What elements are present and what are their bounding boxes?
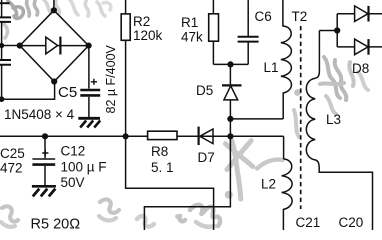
node diode split junction	[334, 27, 340, 33]
resistor R1	[209, 14, 219, 41]
svg-text:C20: C20	[339, 215, 364, 230]
svg-text:D5: D5	[196, 83, 213, 98]
wire bridge top lead	[53, 0, 55, 10]
node D5 anode / L1 junction	[227, 116, 233, 122]
wire D8 row	[337, 46, 382, 48]
node left edge junction	[0, 43, 4, 48]
bridge inner wire	[20, 45, 89, 47]
wire R1 to C6	[213, 63, 248, 65]
wire C12 to ground	[44, 166, 46, 185]
wire left edge vertical top	[1, 0, 3, 99]
wire L3 to diode junction	[319, 30, 337, 32]
watermark big X center	[225, 140, 282, 199]
wire left node to edge	[2, 45, 20, 47]
svg-text:1N5408 × 4: 1N5408 × 4	[4, 107, 75, 122]
resistor R2	[121, 14, 130, 40]
ground (under C12)	[32, 186, 56, 196]
wire R1 top lead	[212, 0, 214, 14]
wire C6 top lead	[247, 0, 249, 36]
svg-text:120k: 120k	[133, 28, 163, 43]
svg-text:50V: 50V	[61, 175, 85, 190]
svg-text:R8: R8	[151, 144, 168, 159]
wire main rail	[0, 135, 284, 137]
svg-text:C12: C12	[61, 144, 86, 159]
wire rail corner down to L2	[283, 136, 285, 159]
diode D7	[199, 127, 213, 145]
svg-text:R1: R1	[181, 15, 198, 30]
svg-text:R2: R2	[133, 14, 150, 29]
watermark bottom-left swirls	[1, 200, 119, 227]
svg-text:100 µ F: 100 µ F	[61, 160, 107, 175]
resistor R8	[148, 131, 177, 139]
inductor L3 (T2 secondary)	[306, 71, 319, 169]
diode D8	[355, 39, 369, 55]
svg-text:D7: D7	[198, 150, 215, 165]
wire D5 node to L1 bottom	[230, 118, 283, 120]
watermark top-left	[4, 0, 111, 38]
node bridge left	[17, 43, 23, 49]
svg-text:C6: C6	[255, 9, 272, 24]
transformer T2 core (dashed)	[300, 26, 302, 209]
wire diode top row	[337, 13, 382, 15]
svg-text:5. 1: 5. 1	[151, 160, 174, 175]
svg-text:C21: C21	[296, 215, 321, 230]
capacitor plate stub top-left	[0, 2, 10, 4]
watermark near dashed core	[294, 89, 301, 137]
wire C6 bottom lead	[247, 42, 249, 64]
svg-text:47k: 47k	[181, 30, 203, 45]
capacitor C12	[32, 150, 55, 165]
wire C12 lead	[44, 136, 46, 158]
wire 82uF to ground	[88, 97, 90, 117]
inductor L1 (T2 primary)	[281, 0, 292, 119]
svg-text:R5 20Ω: R5 20Ω	[31, 217, 81, 231]
svg-text:C25: C25	[0, 146, 25, 161]
svg-text:L1: L1	[264, 60, 279, 75]
bridge diode D (inside bridge)	[46, 37, 61, 55]
wire D5 column	[144, 64, 230, 230]
svg-text:L3: L3	[326, 112, 341, 127]
wire R2 top lead	[125, 0, 127, 14]
node bridge bottom	[51, 78, 57, 84]
node rail / R2 junction	[123, 133, 129, 139]
node bridge right	[86, 43, 92, 49]
wire L3 top lead	[318, 31, 320, 71]
wire bottom-left return	[2, 82, 55, 100]
watermark bottom script	[137, 191, 233, 227]
wire right node down	[88, 46, 90, 89]
node rail / C12 junction	[42, 133, 48, 139]
svg-text:82 µ F/400V: 82 µ F/400V	[104, 44, 118, 113]
capacitor C5 (82uF/400V electrolytic)	[80, 79, 100, 96]
wire diode junction vertical	[336, 14, 338, 47]
capacitor CX2 left edge plates	[0, 60, 11, 65]
diode D5	[222, 85, 242, 100]
node bridge top	[51, 7, 57, 13]
bridge rectifier diamond	[20, 10, 89, 81]
watermark right-center flower	[320, 57, 368, 114]
inductor L2 (T2 primary 2)	[282, 159, 293, 230]
wire R1 bottom lead	[212, 41, 214, 64]
wire R2 bottom long lead down to corner and right to bottom edge	[126, 40, 214, 230]
node rail / D7 junction	[227, 133, 233, 139]
diode D6 (top right)	[355, 6, 369, 22]
svg-text:L2: L2	[261, 177, 276, 192]
node R1/C6/D5 junction	[227, 61, 233, 67]
svg-text:T2: T2	[292, 9, 308, 24]
svg-text:C5: C5	[58, 84, 77, 101]
node bottom-left junction	[0, 96, 4, 102]
wire L3 bottom lead to C20	[319, 169, 372, 231]
ground (under C5 cap)	[78, 118, 100, 127]
svg-text:472: 472	[0, 161, 23, 176]
capacitor CX1 left edge plates	[0, 17, 11, 22]
svg-text:D8: D8	[352, 61, 369, 76]
capacitor C6	[238, 37, 259, 42]
